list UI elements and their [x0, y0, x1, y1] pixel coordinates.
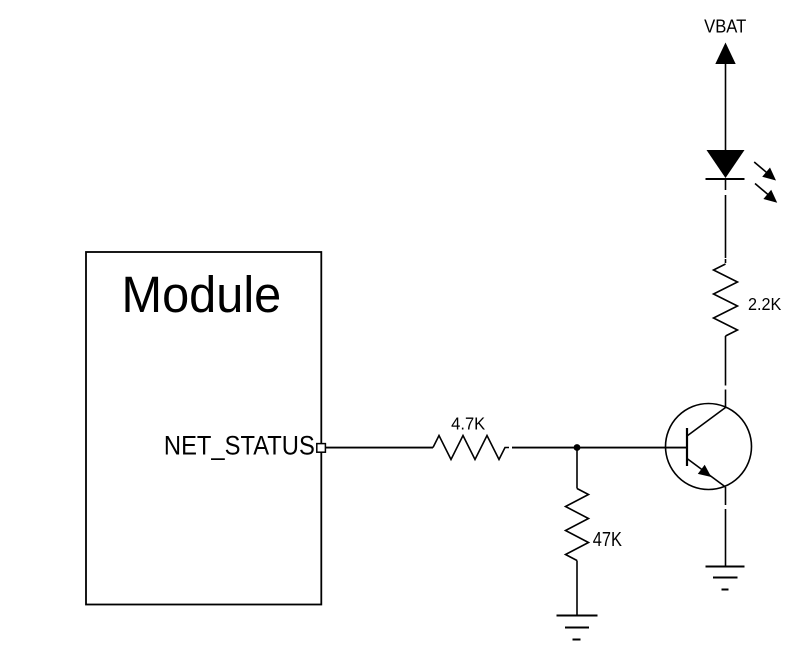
svg-text:NET_STATUS: NET_STATUS	[164, 431, 315, 461]
svg-text:4.7K: 4.7K	[451, 413, 485, 434]
svg-text:47K: 47K	[593, 527, 622, 550]
svg-text:2.2K: 2.2K	[748, 294, 782, 314]
svg-text:Module: Module	[122, 266, 282, 323]
svg-text:VBAT: VBAT	[704, 16, 746, 37]
